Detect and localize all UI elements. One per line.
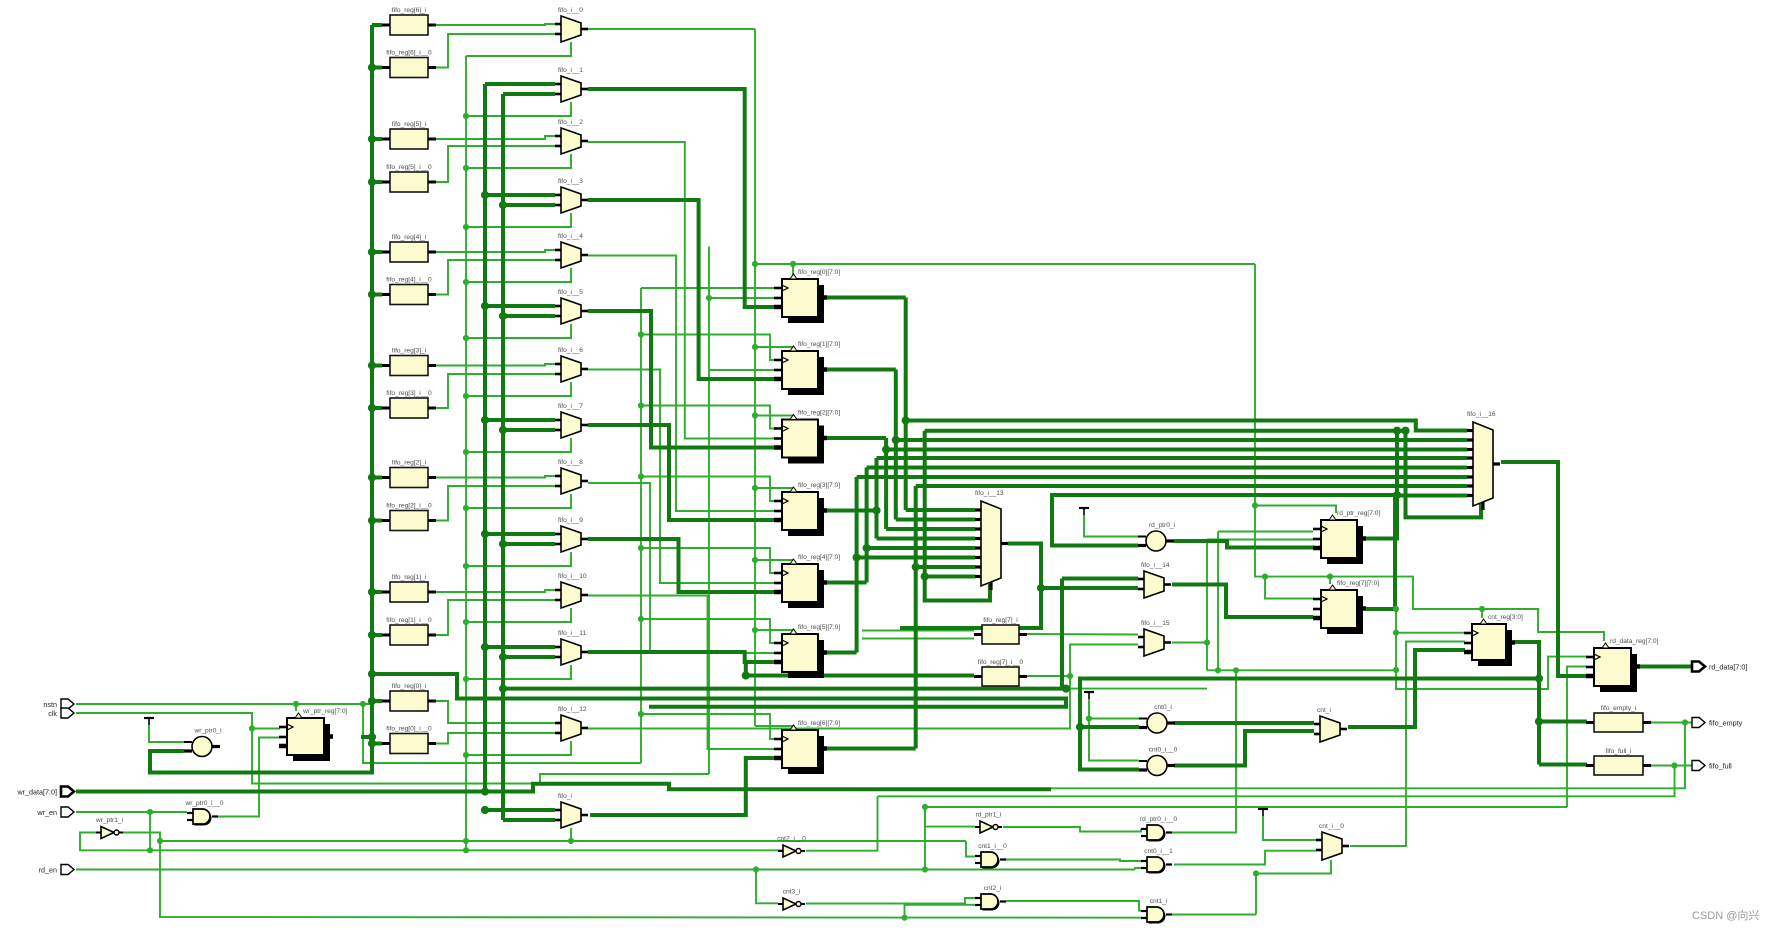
svg-text:wr_ptr_reg[7:0]: wr_ptr_reg[7:0] [302,708,348,715]
svg-text:fifo_i__12: fifo_i__12 [558,706,587,713]
svg-text:fifo_i__1: fifo_i__1 [558,67,583,74]
svg-text:nstn: nstn [43,700,57,709]
svg-text:fifo_i__6: fifo_i__6 [558,347,583,354]
svg-text:rd_ptr_reg[7:0]: rd_ptr_reg[7:0] [1337,510,1380,517]
svg-text:rd_en: rd_en [39,866,57,875]
svg-text:rd_ptr1_i: rd_ptr1_i [975,812,1002,819]
svg-text:fifo_reg[6][7:0]: fifo_reg[6][7:0] [798,720,840,727]
svg-text:fifo_empty: fifo_empty [1709,719,1743,728]
svg-text:fifo_reg[5]_i__0: fifo_reg[5]_i__0 [386,164,432,171]
svg-text:fifo_reg[0]_i: fifo_reg[0]_i [392,683,427,690]
svg-text:fifo_i: fifo_i [558,793,572,800]
svg-text:cnt0_i__1: cnt0_i__1 [1144,848,1173,855]
svg-text:cnt3_i: cnt3_i [783,889,801,896]
svg-text:fifo_reg[0][7:0]: fifo_reg[0][7:0] [798,269,840,276]
svg-text:rd_data[7:0]: rd_data[7:0] [1709,663,1747,672]
svg-text:cnt1_i: cnt1_i [1150,898,1168,905]
svg-text:rd_data_reg[7:0]: rd_data_reg[7:0] [1610,638,1659,645]
svg-text:fifo_i__2: fifo_i__2 [558,119,583,126]
svg-text:wr_ptr1_i: wr_ptr1_i [95,817,124,824]
svg-text:fifo_reg[6]_i__0: fifo_reg[6]_i__0 [386,50,432,57]
svg-text:cnt0_i: cnt0_i [1154,704,1172,711]
svg-text:fifo_i__15: fifo_i__15 [1141,620,1170,627]
svg-text:rd_ptr0_i__0: rd_ptr0_i__0 [1140,816,1177,823]
svg-text:fifo_reg[1][7:0]: fifo_reg[1][7:0] [798,341,840,348]
svg-text:cnt2_i__0: cnt2_i__0 [777,836,806,843]
svg-text:fifo_i__4: fifo_i__4 [558,233,583,240]
svg-text:fifo_reg[5][7:0]: fifo_reg[5][7:0] [798,624,840,631]
svg-text:wr_ptr0_i: wr_ptr0_i [193,728,222,735]
svg-text:fifo_full_i: fifo_full_i [1605,748,1632,755]
svg-text:fifo_i__9: fifo_i__9 [558,517,583,524]
svg-text:fifo_reg[7][7:0]: fifo_reg[7][7:0] [1337,580,1379,587]
svg-text:cnt_reg[3:0]: cnt_reg[3:0] [1488,614,1523,621]
svg-text:fifo_reg[4]_i__0: fifo_reg[4]_i__0 [386,277,432,284]
svg-text:fifo_i__3: fifo_i__3 [558,178,583,185]
svg-text:fifo_reg[2][7:0]: fifo_reg[2][7:0] [798,410,840,417]
svg-text:fifo_reg[7]_i: fifo_reg[7]_i [983,617,1018,624]
svg-text:fifo_reg[3][7:0]: fifo_reg[3][7:0] [798,482,840,489]
svg-text:fifo_reg[1]_i: fifo_reg[1]_i [392,574,427,581]
svg-text:wr_en: wr_en [36,808,57,817]
svg-text:fifo_reg[3]_i: fifo_reg[3]_i [392,348,427,355]
svg-text:fifo_i__8: fifo_i__8 [558,459,583,466]
svg-text:cnt_i__0: cnt_i__0 [1319,823,1344,830]
svg-text:fifo_empty_i: fifo_empty_i [1601,705,1637,712]
svg-text:clk: clk [48,709,57,718]
svg-text:fifo_i__16: fifo_i__16 [1467,411,1496,418]
svg-text:fifo_reg[1]_i__0: fifo_reg[1]_i__0 [386,617,432,624]
svg-text:fifo_reg[5]_i: fifo_reg[5]_i [392,121,427,128]
svg-text:fifo_i__11: fifo_i__11 [558,630,586,637]
svg-text:fifo_reg[4]_i: fifo_reg[4]_i [392,234,427,241]
svg-text:fifo_reg[2]_i: fifo_reg[2]_i [392,460,427,467]
svg-text:fifo_i__13: fifo_i__13 [975,490,1004,497]
svg-text:cnt0_i__0: cnt0_i__0 [1149,747,1178,754]
svg-text:wr_ptr0_i__0: wr_ptr0_i__0 [184,800,223,807]
svg-text:fifo_i__0: fifo_i__0 [558,7,583,14]
svg-text:fifo_reg[6]_i: fifo_reg[6]_i [392,7,427,14]
svg-text:cnt_i: cnt_i [1317,707,1331,714]
svg-text:CSDN @向兴: CSDN @向兴 [1692,908,1759,922]
svg-text:fifo_reg[3]_i__0: fifo_reg[3]_i__0 [386,390,432,397]
svg-text:fifo_reg[0]_i__0: fifo_reg[0]_i__0 [386,726,432,733]
svg-text:fifo_i__5: fifo_i__5 [558,289,583,296]
svg-text:rd_ptr0_i: rd_ptr0_i [1149,522,1176,529]
svg-text:fifo_i__14: fifo_i__14 [1141,562,1170,569]
svg-text:cnt2_i: cnt2_i [984,885,1002,892]
svg-text:fifo_i__10: fifo_i__10 [558,573,587,580]
svg-text:fifo_full: fifo_full [1709,762,1732,771]
svg-text:fifo_i__7: fifo_i__7 [558,403,583,410]
svg-text:wr_data[7:0]: wr_data[7:0] [16,788,57,797]
svg-text:fifo_reg[2]_i__0: fifo_reg[2]_i__0 [386,503,432,510]
svg-text:cnt1_i__0: cnt1_i__0 [978,843,1007,850]
svg-text:fifo_reg[7]_i__0: fifo_reg[7]_i__0 [978,659,1024,666]
svg-text:fifo_reg[4][7:0]: fifo_reg[4][7:0] [798,554,840,561]
